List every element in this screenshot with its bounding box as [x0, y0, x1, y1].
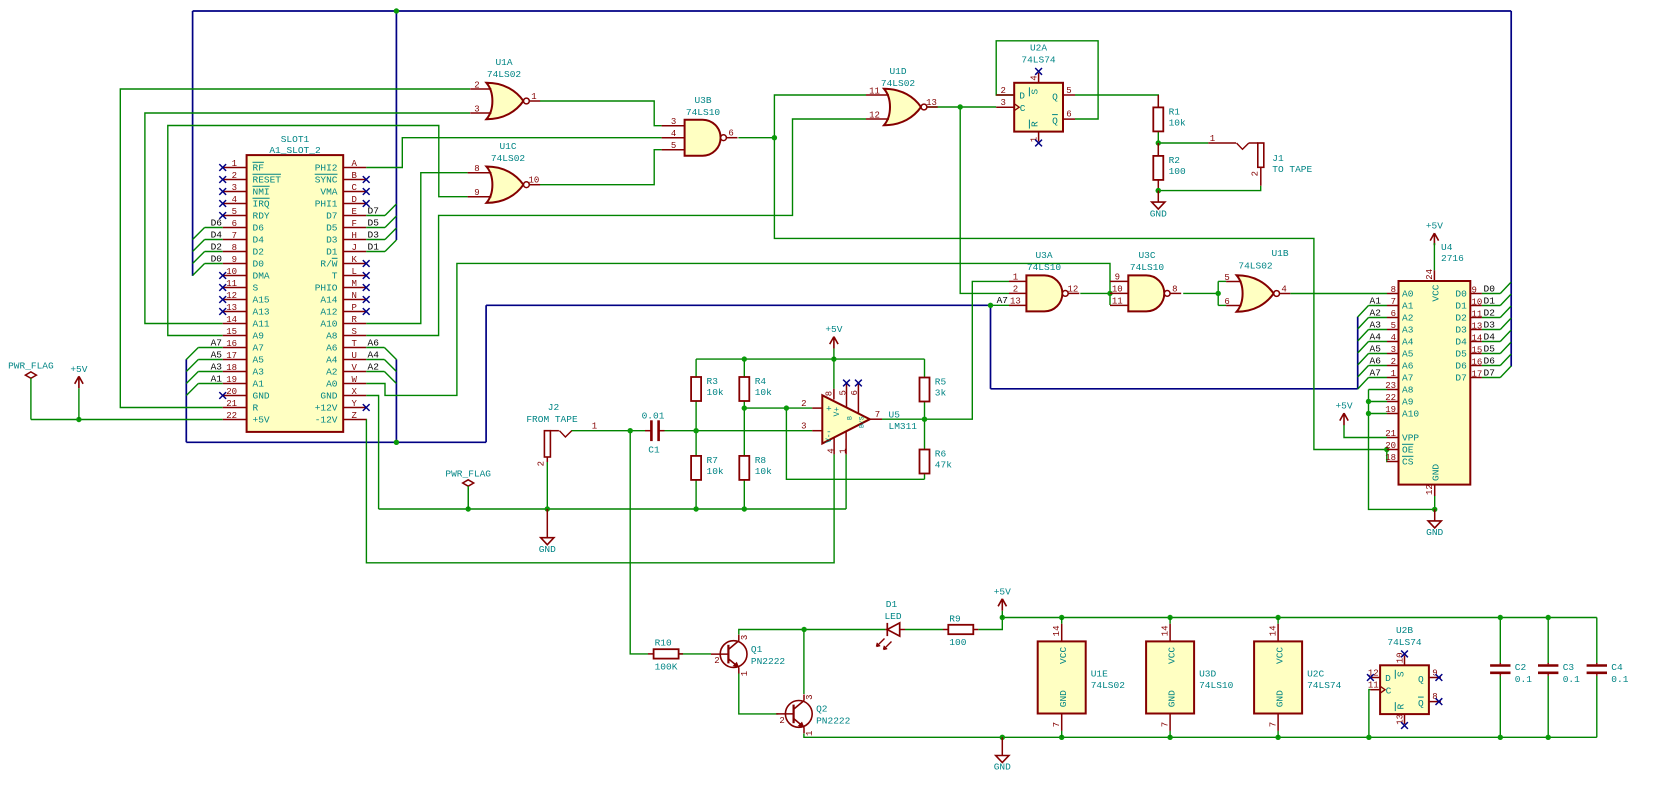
- no-connect U2A pin 4 S: [1035, 68, 1042, 75]
- svg-text:5: 5: [671, 141, 676, 151]
- pin R (A10) SLOT1: [343, 323, 366, 325]
- power +5V at U4 VCC: [1430, 233, 1438, 245]
- svg-text:S: S: [253, 283, 259, 294]
- no-connect U2B pin 9 Q: [1436, 674, 1443, 681]
- junction: [801, 627, 806, 632]
- svg-text:11: 11: [1368, 680, 1379, 690]
- junction: [831, 356, 836, 361]
- svg-text:A7: A7: [253, 343, 264, 354]
- no-connect SLOT1 pin 20: [219, 392, 226, 399]
- pin 3 (A5) U4: [1387, 353, 1399, 355]
- wire Q1 emitter to Q2 base: [739, 674, 779, 714]
- svg-text:V: V: [352, 363, 358, 373]
- pin 23 (A8) U4: [1387, 389, 1399, 391]
- wire PWR_FLAG stem to GND rail: [467, 488, 469, 509]
- svg-text:D0: D0: [253, 259, 265, 270]
- svg-text:RESET: RESET: [253, 175, 282, 186]
- svg-text:7: 7: [1052, 722, 1062, 727]
- junction: [1366, 399, 1371, 404]
- pin Y (+12V) SLOT1: [343, 407, 366, 409]
- pin 9 (D0) U4: [1470, 293, 1482, 295]
- pin 22 (+5V) SLOT1: [223, 419, 247, 421]
- resistor R8 10k: [739, 456, 749, 480]
- svg-text:R: R: [253, 403, 259, 414]
- svg-text:14: 14: [1269, 625, 1279, 636]
- wire U2A Q to R1: [1075, 95, 1158, 107]
- pin B (SYNC) SLOT1: [343, 179, 366, 181]
- bus A horizontal to U4: [991, 388, 1358, 390]
- svg-text:2: 2: [1250, 171, 1260, 176]
- pin 15 (A9) SLOT1: [223, 335, 247, 337]
- svg-text:22: 22: [226, 411, 237, 421]
- svg-text:23: 23: [1385, 381, 1396, 391]
- svg-text:13: 13: [1472, 321, 1483, 331]
- svg-text:7: 7: [232, 231, 237, 241]
- wire SLOT1 pin Z -12V to LM311 pin 4: [366, 420, 834, 563]
- no-connect SLOT1 pin D: [363, 200, 370, 207]
- svg-text:2: 2: [1000, 86, 1005, 96]
- svg-text:22: 22: [1385, 393, 1396, 403]
- svg-text:RF: RF: [253, 163, 265, 174]
- power +5V above LM311: [830, 337, 838, 349]
- svg-text:A1: A1: [211, 373, 223, 384]
- svg-text:A6: A6: [326, 343, 338, 354]
- junction: [1384, 447, 1389, 452]
- ground GND below R2: [1156, 188, 1161, 193]
- pin 8 (D2) SLOT1: [223, 251, 247, 253]
- svg-text:U5: U5: [889, 410, 901, 421]
- pin 7 (A1) U4: [1387, 305, 1399, 307]
- junction: [1059, 615, 1064, 620]
- pin 18 CS U4: [1387, 461, 1399, 463]
- pin 21 VPP U4: [1387, 437, 1399, 439]
- resistor R4 10k: [739, 377, 749, 401]
- svg-text:A2: A2: [1402, 313, 1414, 324]
- svg-text:8: 8: [1172, 284, 1177, 294]
- pin D (PHI1) SLOT1: [343, 203, 366, 205]
- svg-text:6: 6: [850, 390, 860, 395]
- svg-text:OE: OE: [1402, 445, 1414, 456]
- svg-text:74LS02: 74LS02: [491, 153, 526, 164]
- svg-text:VCC: VCC: [1431, 284, 1442, 301]
- svg-text:9: 9: [1115, 273, 1120, 283]
- flip-flop U2A 74LS74: [1014, 83, 1063, 132]
- svg-text:D0: D0: [1455, 289, 1467, 300]
- svg-text:2: 2: [714, 656, 719, 666]
- pin 7 U1E: [1061, 714, 1063, 731]
- bus A vertical drop: [990, 305, 992, 389]
- wire U4 VCC to +5V: [1433, 243, 1435, 270]
- svg-text:3: 3: [1391, 345, 1396, 355]
- svg-text:14: 14: [226, 315, 237, 325]
- svg-text:SYNC: SYNC: [315, 175, 338, 186]
- pin 16 (A7) SLOT1: [223, 347, 247, 349]
- svg-text:A3: A3: [1402, 325, 1414, 336]
- svg-text:A2: A2: [368, 361, 380, 372]
- svg-text:U1A: U1A: [495, 57, 512, 68]
- resistor R5 3k: [920, 378, 930, 402]
- pin 7 U3D: [1169, 714, 1171, 731]
- svg-text:21: 21: [1385, 429, 1396, 439]
- svg-text:+5V: +5V: [1335, 401, 1352, 412]
- pin T (A6) SLOT1: [343, 347, 366, 349]
- svg-text:A8: A8: [326, 331, 338, 342]
- pin 4 (IRQ) SLOT1: [223, 203, 247, 205]
- svg-text:C: C: [1386, 685, 1392, 696]
- svg-text:GND: GND: [1275, 690, 1286, 707]
- pin A (PHI2) SLOT1: [343, 167, 366, 169]
- svg-text:R6: R6: [935, 449, 947, 460]
- ground GND at bottom rail: [1001, 737, 1003, 755]
- svg-text:2: 2: [801, 399, 806, 409]
- svg-text:10k: 10k: [707, 387, 724, 398]
- svg-text:FROM TAPE: FROM TAPE: [526, 414, 578, 425]
- wire U4 GND pin: [1434, 496, 1436, 509]
- svg-text:D7: D7: [1484, 368, 1495, 379]
- pin U (A4) SLOT1: [343, 359, 366, 361]
- bus D right vertical at U4: [1510, 11, 1512, 367]
- svg-text:A5: A5: [211, 349, 223, 360]
- svg-text:3: 3: [805, 694, 815, 699]
- svg-text:B: B: [352, 171, 358, 181]
- svg-text:C2: C2: [1515, 662, 1527, 673]
- junction: [1275, 615, 1280, 620]
- bus A vertical (A6-A2 entries): [395, 359, 397, 442]
- svg-text:11: 11: [869, 86, 880, 96]
- wire R9 to +5V node: [978, 618, 1002, 630]
- svg-text:10: 10: [226, 267, 237, 277]
- bus A vertical at U4: [1357, 317, 1359, 389]
- svg-text:A3: A3: [253, 367, 265, 378]
- wire and bus entry A6 right: [366, 347, 384, 349]
- svg-text:74LS02: 74LS02: [1091, 680, 1126, 691]
- pin V (A2) SLOT1: [343, 371, 366, 373]
- svg-text:TO TAPE: TO TAPE: [1272, 164, 1312, 175]
- pin 1 (RF) SLOT1: [223, 167, 247, 169]
- pin 6 (D6) SLOT1: [223, 227, 247, 229]
- svg-text:U: U: [352, 351, 357, 361]
- bus A vertical riser: [485, 305, 487, 442]
- svg-text:+5V: +5V: [994, 586, 1011, 597]
- svg-text:10: 10: [1472, 297, 1483, 307]
- wire divider tap to R6 bottom: [786, 408, 924, 479]
- svg-text:LM311: LM311: [889, 421, 918, 432]
- wire R5 bottom to output node: [924, 402, 926, 420]
- pin N (A14) SLOT1: [343, 299, 366, 301]
- pin 14 U3D: [1169, 618, 1171, 624]
- resistor R3 10k: [691, 377, 701, 401]
- svg-text:14: 14: [1052, 625, 1062, 636]
- svg-text:VCC: VCC: [1275, 647, 1286, 664]
- svg-text:3: 3: [232, 183, 237, 193]
- svg-text:D2: D2: [1484, 308, 1496, 319]
- power +5V at R9: [998, 599, 1006, 611]
- pin 19 (A1) SLOT1: [223, 383, 247, 385]
- pin 14 (A11) SLOT1: [223, 323, 247, 325]
- resistor R10 100K: [654, 649, 679, 658]
- svg-text:74LS02: 74LS02: [487, 69, 522, 80]
- svg-text:A0: A0: [326, 379, 338, 390]
- wire LM311 pin 1 to GND rail: [845, 454, 847, 509]
- gate body U3C: [1128, 275, 1164, 311]
- svg-text:D6: D6: [1484, 356, 1496, 367]
- svg-text:-12V: -12V: [315, 415, 338, 426]
- svg-text:18: 18: [226, 363, 237, 373]
- wire A0 long line (SLOT1 W to U3C): [366, 263, 1110, 395]
- svg-text:DMA: DMA: [253, 271, 270, 282]
- junction: [1107, 291, 1112, 296]
- pin 14 U1E: [1061, 618, 1063, 624]
- svg-text:20: 20: [226, 387, 237, 397]
- svg-text:74LS10: 74LS10: [1130, 262, 1165, 273]
- bus D right vertical at SLOT1 (D7-D1 entries): [395, 11, 397, 240]
- no-connect U2A pin 1 R: [1035, 140, 1042, 147]
- no-connect U2B pin 8 Qbar: [1436, 698, 1443, 705]
- no-connect SLOT1 pin C: [363, 188, 370, 195]
- svg-text:B: B: [847, 416, 854, 420]
- wire R4 top: [743, 359, 745, 377]
- power unit U3D 74LS10: [1146, 641, 1194, 713]
- svg-text:D7: D7: [368, 205, 379, 216]
- svg-text:A3: A3: [1370, 320, 1382, 331]
- svg-text:R4: R4: [755, 376, 767, 387]
- svg-text:Q: Q: [1418, 698, 1424, 709]
- svg-text:100: 100: [949, 637, 966, 648]
- svg-text:5: 5: [1391, 321, 1396, 331]
- svg-text:0.1: 0.1: [1611, 674, 1628, 685]
- wire divider node R4-R8 to LM311 pin 2: [743, 401, 745, 456]
- svg-text:K: K: [352, 255, 358, 265]
- wire C1 to LM311 pin 3: [665, 430, 813, 432]
- svg-text:A5: A5: [1402, 349, 1414, 360]
- wire U3B output to U4 OE/CS: [774, 138, 1386, 450]
- transistor Q1 PN2222: [720, 641, 747, 668]
- svg-text:C1: C1: [648, 445, 660, 456]
- wire SLOT1 pin 21 R to U1A pin 2: [120, 89, 470, 408]
- wire U2A Qbar feedback to D: [996, 41, 1098, 119]
- svg-text:D1: D1: [1455, 301, 1467, 312]
- transistor Q2 PN2222: [785, 701, 812, 728]
- svg-text:+12V: +12V: [315, 403, 338, 414]
- pin 19 (A10) U4: [1387, 413, 1399, 415]
- svg-text:A1: A1: [253, 379, 265, 390]
- svg-text:A1_SLOT_2: A1_SLOT_2: [269, 145, 321, 156]
- svg-text:17: 17: [226, 351, 237, 361]
- wire Q2 collector up: [803, 630, 805, 695]
- wire and bus entry D6 U4: [1482, 365, 1500, 367]
- wire D1 to R9: [905, 629, 943, 631]
- junction: [1059, 735, 1064, 740]
- svg-text:V-: V-: [825, 433, 834, 443]
- wire and bus entry A5: [198, 359, 222, 361]
- svg-text:U2A: U2A: [1030, 43, 1047, 54]
- svg-text:2: 2: [1013, 285, 1018, 295]
- wire and bus entry A7 U4: [1369, 377, 1388, 379]
- svg-text:PWR_FLAG: PWR_FLAG: [445, 469, 491, 480]
- pin W (A0) SLOT1: [343, 383, 366, 385]
- pin 13 (A13) SLOT1: [223, 311, 247, 313]
- svg-text:C3: C3: [1563, 662, 1575, 673]
- svg-text:1: 1: [839, 448, 849, 453]
- svg-text:D0: D0: [1484, 284, 1496, 295]
- pin L (T) SLOT1: [343, 275, 366, 277]
- svg-text:1: 1: [805, 731, 815, 736]
- wire U5 output to U3A pin 1: [882, 281, 1009, 419]
- wire and bus entry D3 U4: [1482, 329, 1500, 331]
- svg-text:24: 24: [1425, 269, 1435, 280]
- svg-text:A5: A5: [253, 355, 265, 366]
- pin H (D3) SLOT1: [343, 239, 366, 241]
- wire R6: [924, 419, 926, 449]
- wire node to J1 pin 1: [1158, 142, 1208, 144]
- svg-text:6: 6: [728, 129, 733, 139]
- pin 14 U2C: [1277, 618, 1279, 624]
- svg-text:A6: A6: [368, 337, 380, 348]
- bus A horizontal bottom: [186, 441, 486, 443]
- svg-text:D7: D7: [326, 211, 337, 222]
- svg-text:8: 8: [232, 243, 237, 253]
- junction: [693, 506, 698, 511]
- wire R8 bottom: [743, 480, 745, 509]
- svg-text:1: 1: [1013, 273, 1018, 283]
- svg-text:A3: A3: [211, 361, 223, 372]
- svg-text:R5: R5: [935, 377, 947, 388]
- pin 7 U2C: [1277, 714, 1279, 731]
- pins U1C: [468, 172, 492, 174]
- wire U4 A9: [1369, 401, 1388, 403]
- svg-text:D1: D1: [1484, 296, 1496, 307]
- svg-text:D3: D3: [1455, 325, 1467, 336]
- svg-text:U1C: U1C: [499, 141, 516, 152]
- wire SLOT1 A10 to U1C pin 8: [366, 173, 467, 324]
- wire U4 VPP to +5V: [1344, 425, 1387, 438]
- no-connect SLOT1 pin 3: [219, 188, 226, 195]
- svg-text:Y: Y: [352, 399, 358, 409]
- wire and bus entry A4 right: [366, 359, 384, 361]
- pin 21 (R) SLOT1: [223, 407, 247, 409]
- junction: [1366, 411, 1371, 416]
- pin 1 (A7) U4: [1387, 377, 1399, 379]
- svg-text:6: 6: [1066, 110, 1071, 120]
- pins U3A: [1009, 280, 1026, 282]
- svg-text:D1: D1: [886, 599, 898, 610]
- svg-text:Q: Q: [1052, 91, 1058, 102]
- pins U1A: [470, 88, 491, 90]
- pin 2 (A6) U4: [1387, 365, 1399, 367]
- svg-text:D3: D3: [326, 235, 338, 246]
- svg-text:7: 7: [1161, 722, 1171, 727]
- wire and bus entry A2 right: [366, 371, 384, 373]
- pin 12 (A15) SLOT1: [223, 299, 247, 301]
- svg-text:A2: A2: [326, 367, 338, 378]
- pin 5 (A3) U4: [1387, 329, 1399, 331]
- pin 5 U5 no-connect: [846, 383, 848, 407]
- pin 6 (A2) U4: [1387, 317, 1399, 319]
- svg-text:R/W: R/W: [320, 259, 337, 270]
- pin 24 VCC U4: [1433, 270, 1435, 281]
- gate body U3A: [1026, 275, 1062, 311]
- power unit U1E 74LS02: [1038, 641, 1086, 713]
- pin 6 U5 no-connect: [857, 383, 859, 413]
- svg-text:15: 15: [1472, 345, 1483, 355]
- svg-text:D4: D4: [1484, 332, 1496, 343]
- connector J2 FROM TAPE: [544, 431, 550, 457]
- svg-text:A12: A12: [320, 307, 337, 318]
- pin 20 OE U4: [1387, 449, 1399, 451]
- svg-text:D5: D5: [326, 223, 338, 234]
- no-connect SLOT1 pin 13: [219, 308, 226, 315]
- wire +5V rail bottom section: [1002, 617, 1597, 619]
- pin 10 (DMA) SLOT1: [223, 275, 247, 277]
- svg-text:RDY: RDY: [253, 211, 270, 222]
- svg-text:A1: A1: [1402, 301, 1414, 312]
- svg-text:PN2222: PN2222: [751, 656, 786, 667]
- svg-text:4: 4: [671, 129, 676, 139]
- pin 13 (D3) U4: [1470, 329, 1482, 331]
- svg-text:11: 11: [1112, 297, 1123, 307]
- no-connect SLOT1 pin K: [363, 260, 370, 267]
- svg-text:7: 7: [1391, 297, 1396, 307]
- svg-text:74LS10: 74LS10: [1027, 262, 1062, 273]
- power +5V at SLOT1: [75, 376, 83, 388]
- svg-text:D2: D2: [211, 241, 223, 252]
- wire and bus entry A3 U4: [1369, 329, 1388, 331]
- svg-text:1: 1: [592, 422, 597, 432]
- svg-text:A7: A7: [1370, 368, 1381, 379]
- pin F (D5) SLOT1: [343, 227, 366, 229]
- svg-text:T: T: [332, 271, 338, 282]
- pin 7 (D4) SLOT1: [223, 239, 247, 241]
- wire SLOT1 A8 to U1D pin 12: [366, 119, 866, 336]
- junction: [958, 104, 963, 109]
- wire and bus entry D0: [205, 263, 223, 265]
- svg-text:A9: A9: [1402, 397, 1414, 408]
- svg-text:1: 1: [1210, 134, 1215, 144]
- wire and bus entry D7 U4: [1482, 377, 1500, 379]
- svg-text:R8: R8: [755, 455, 767, 466]
- svg-text:1: 1: [740, 671, 750, 676]
- wire and bus entry D2 U4: [1482, 317, 1500, 319]
- svg-text:8: 8: [1432, 692, 1437, 702]
- junction: [1216, 291, 1221, 296]
- gate body U3B: [685, 120, 721, 156]
- svg-text:+: +: [826, 404, 832, 415]
- svg-text:D3: D3: [368, 229, 380, 240]
- svg-text:19: 19: [1385, 405, 1396, 415]
- svg-text:Q: Q: [1052, 115, 1058, 126]
- svg-text:10k: 10k: [707, 466, 724, 477]
- capacitor C4 0.1: [1587, 664, 1607, 667]
- svg-text:4: 4: [1391, 333, 1396, 343]
- svg-text:4: 4: [232, 195, 237, 205]
- wire U1D output to U2A clock: [924, 106, 996, 108]
- wire and bus entry A4 U4: [1369, 341, 1388, 343]
- svg-text:B/S: B/S: [859, 416, 866, 428]
- pin S (A8) SLOT1: [343, 335, 366, 337]
- wire U4 A10: [1369, 413, 1388, 415]
- svg-text:3: 3: [740, 635, 750, 640]
- junction: [545, 506, 550, 511]
- svg-text:U4: U4: [1441, 242, 1453, 253]
- svg-text:S: S: [1395, 671, 1406, 677]
- svg-text:14: 14: [1472, 333, 1483, 343]
- junction: [1156, 188, 1161, 193]
- svg-text:13: 13: [1396, 714, 1406, 725]
- svg-text:T: T: [352, 339, 358, 349]
- wire and bus entry D5 right: [366, 227, 385, 229]
- svg-text:A2: A2: [1370, 308, 1382, 319]
- svg-text:PHI2: PHI2: [315, 163, 338, 174]
